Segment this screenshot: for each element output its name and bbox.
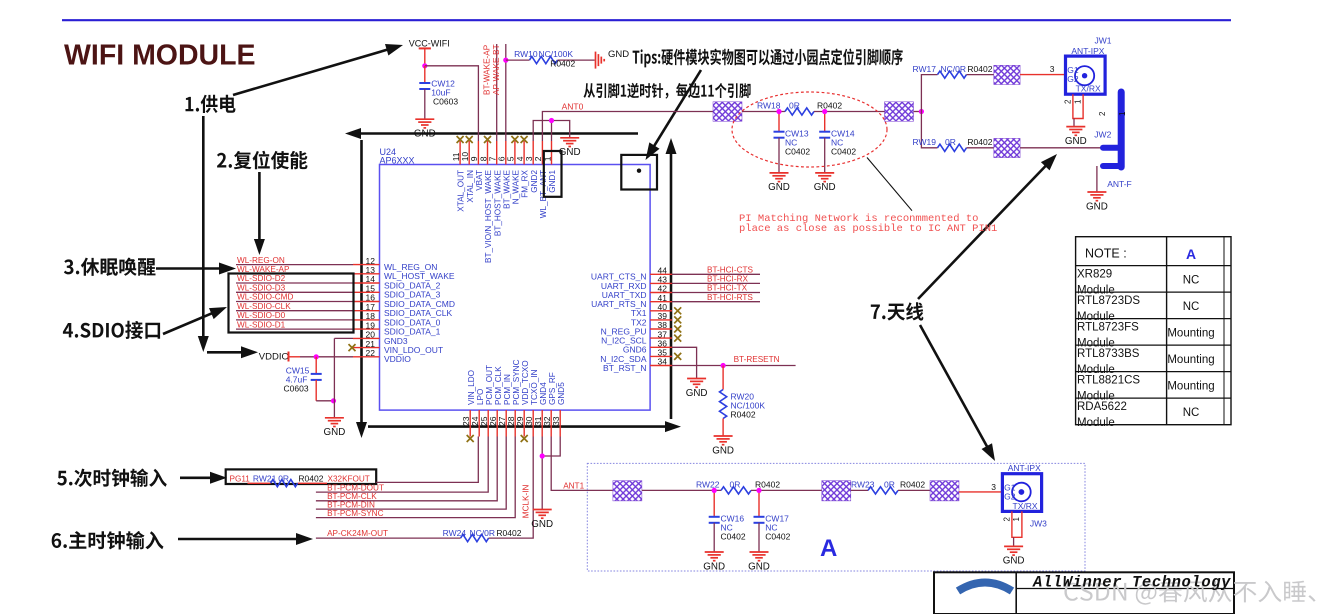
svg-text:1: 1 [1073,99,1082,104]
crosshatch ferrite 3 [994,65,1020,84]
resistor RW19 [913,137,994,151]
svg-text:RTL8821CS: RTL8821CS [1077,375,1140,387]
NOTE table [1076,237,1231,430]
label 4 sdio [63,321,160,339]
svg-text:WL-REG-ON: WL-REG-ON [237,256,285,265]
svg-text:VDDIO: VDDIO [259,352,289,363]
svg-text:GND: GND [814,182,836,193]
svg-text:BT_WAKE: BT_WAKE [502,169,511,208]
svg-text:R0402: R0402 [298,473,323,483]
wire pin20 GND3 down [334,338,353,417]
svg-text:X32KFOUT: X32KFOUT [328,474,370,483]
power port VDDIO [259,352,300,363]
arrow tips to pin1 locator [652,70,701,150]
svg-text:XR829: XR829 [1077,269,1112,281]
svg-text:GND: GND [608,49,629,60]
loop arrow bottom (right) [368,421,681,432]
ground below CW13 [768,173,790,193]
crosshatch ferrite 2 [885,102,914,122]
wire RW24 to MCLK pin30 [489,437,534,539]
svg-text:A: A [1186,246,1196,262]
top border line [62,19,1231,21]
svg-text:R0402: R0402 [550,59,575,69]
svg-text:GND: GND [324,427,346,438]
svg-text:3: 3 [991,482,996,492]
svg-text:AP-CK24M-OUT: AP-CK24M-OUT [327,529,388,538]
ground below CW16 [703,552,725,572]
dashed region A box [587,463,1085,571]
svg-text:2: 2 [1064,99,1073,104]
svg-text:GND: GND [414,129,436,140]
svg-text:GPS_RF: GPS_RF [548,372,557,405]
arrow label1 down [198,116,209,352]
svg-text:VDD_TCXO: VDD_TCXO [521,360,530,405]
resistor RW10 [506,49,595,68]
junction VDDIO [314,354,319,359]
capacitor CW16 [709,488,746,552]
label 3 xiumian [64,258,156,276]
svg-text:C0603: C0603 [284,384,309,394]
arrow label2 down [254,172,265,255]
ground below RW20 [712,436,734,456]
ground below GND6 [686,379,708,399]
ground below JW3 [1003,546,1025,566]
arrow label6 [178,538,301,541]
svg-text:BT-HCI-CTS: BT-HCI-CTS [707,266,753,275]
svg-text:MCLK-IN: MCLK-IN [521,484,530,518]
svg-text:R0402: R0402 [967,137,992,147]
resistor RW22 [696,480,822,494]
svg-text:ANT0: ANT0 [562,102,584,112]
svg-text:JW2: JW2 [1094,129,1111,139]
svg-text:GND: GND [1086,201,1108,212]
ground below pin31 [531,510,553,530]
svg-text:BT-PCM-DOUT: BT-PCM-DOUT [327,483,384,492]
wire X32KFOUT to pin24 [376,437,478,483]
svg-text:PCM_OUT: PCM_OUT [485,365,494,405]
no-connect X mark pin 21 [349,344,356,351]
svg-text:RW17: RW17 [913,64,937,74]
svg-text:PCM_CLK: PCM_CLK [494,366,503,405]
loop arrow right (up) [666,138,677,419]
svg-text:VCC-WIFI: VCC-WIFI [409,39,450,49]
svg-text:C0603: C0603 [433,97,458,107]
svg-text:place as close as possible to: place as close as possible to IC ANT PIN… [739,223,997,235]
svg-text:ANT-IPX: ANT-IPX [1071,46,1104,56]
svg-text:AllWinner Technology: AllWinner Technology [1032,574,1231,592]
wire VDDIO to pin22 [300,356,353,358]
svg-text:GND4: GND4 [539,382,548,405]
svg-text:RTL8723DS: RTL8723DS [1077,295,1140,307]
svg-text:XTAL_IN: XTAL_IN [466,170,475,203]
svg-text:GND5: GND5 [557,382,566,405]
svg-text:Mounting: Mounting [1167,327,1214,339]
svg-text:WL-SDIO-D1: WL-SDIO-D1 [237,320,286,329]
resistor RW18 [757,101,885,115]
svg-text:GND: GND [1065,136,1087,147]
resistor RW17 [913,64,994,78]
svg-text:TX/RX: TX/RX [1013,501,1038,511]
ground below JW2 [1086,192,1108,212]
svg-text:R0402: R0402 [817,101,842,111]
svg-text:VDDIO: VDDIO [384,354,411,364]
resistor RW24 [443,528,522,542]
title block [934,572,1234,614]
svg-text:WL-SDIO-D2: WL-SDIO-D2 [237,274,286,283]
annotation box around SDIO nets [229,274,354,333]
svg-text:3: 3 [1050,64,1055,74]
power symbol VCC-WIFI [409,39,450,66]
wire GND6 to ground [672,347,697,378]
ground below CW17 [748,552,770,572]
ground below JW1 [1065,127,1087,147]
svg-text:BT-PCM-SYNC: BT-PCM-SYNC [327,509,383,518]
svg-text:GND: GND [1003,556,1025,567]
svg-text:BT-RESETN: BT-RESETN [734,355,780,364]
svg-text:Module: Module [1077,417,1115,429]
svg-text:GND1: GND1 [548,170,557,193]
connector JW3 ANT-IPX [1002,463,1041,511]
svg-text:BT-HCI-RTS: BT-HCI-RTS [707,293,753,302]
tips text [633,49,903,68]
crosshatch ferrite 6 [822,481,851,501]
svg-text:C0402: C0402 [785,147,810,157]
svg-text:R0402: R0402 [900,480,925,490]
arrow label4 [163,312,216,334]
tips text line2 [584,83,751,99]
svg-text:GND: GND [686,388,708,399]
svg-text:PCM_IN: PCM_IN [503,374,512,405]
svg-text:0R: 0R [730,480,741,490]
net BT-RESETN [672,355,796,368]
svg-text:TCXO_IN: TCXO_IN [530,369,539,405]
resistor RW23 [851,480,930,494]
svg-text:ANT-IPX: ANT-IPX [1008,463,1041,473]
wire junction down to RW19 [921,112,937,148]
net BT-WAKE-AP vertical [483,44,497,141]
svg-text:BT-HCI-TX: BT-HCI-TX [707,284,748,293]
svg-text:BT-WAKE-AP: BT-WAKE-AP [483,44,492,95]
capacitor CW13 [774,109,811,173]
svg-text:JW3: JW3 [1030,518,1047,528]
svg-text:R0402: R0402 [731,409,756,419]
BT-HCI net labels and wires [672,266,760,302]
wire GND2 GND1 to ground [533,118,570,141]
svg-text:RW10: RW10 [514,49,538,59]
svg-text:0R: 0R [278,473,289,483]
svg-text:C0402: C0402 [765,532,790,542]
svg-text:NC: NC [1183,301,1200,313]
ground sideways after RW10 [596,49,630,69]
pin1 locator box with dot [621,155,657,190]
JW1 pins 2 1 to ground [1064,94,1083,126]
svg-text:1: 1 [1012,517,1021,522]
wire crosshatch1 to RW18 [742,111,785,113]
svg-text:RW18: RW18 [757,101,781,111]
svg-text:33: 33 [551,416,561,426]
no-connect X marks top pins [457,136,528,143]
svg-text:NC/0R: NC/0R [941,64,967,74]
svg-text:NC: NC [1183,407,1200,419]
svg-text:R0402: R0402 [967,64,992,74]
loop arrow left (down) [356,140,367,438]
svg-text:22: 22 [366,348,376,358]
svg-text:2: 2 [1098,111,1107,116]
svg-text:2: 2 [1003,517,1012,522]
arrow label1 to VCC-WIFI [233,48,392,95]
BT-PCM net labels and wires [316,437,515,518]
annotation box around GND1 pin [544,151,562,197]
ground below CW12 [414,119,436,139]
svg-text:WL-SDIO-D3: WL-SDIO-D3 [237,284,286,293]
capacitor CW14 [819,109,856,173]
junction VCC-WIFI [422,63,427,68]
svg-text:FM_RX: FM_RX [521,169,530,197]
label 1 gongdian [186,95,236,113]
svg-text:GND: GND [748,561,770,572]
svg-text:NC/0R: NC/0R [470,528,496,538]
wire crosshatch2 to junction [914,111,922,113]
crosshatch ferrite 4 [994,138,1020,157]
capacitor CW12 [419,66,458,119]
svg-text:RW24: RW24 [443,528,467,538]
ground below CW14 [814,173,836,193]
svg-text:R0402: R0402 [496,528,521,538]
wire CW15 to gnd node [316,400,334,402]
label 5 cishizhong [57,469,167,488]
svg-text:AP6XXX: AP6XXX [380,156,415,166]
svg-text:ANT1: ANT1 [563,481,584,490]
ic U24 body [380,165,651,411]
arrow label7 up to JW2 [918,163,1049,299]
left net labels WL- wires [236,256,353,330]
label 7 tianxian [871,302,924,320]
net AP-CK24M-OUT [316,529,461,538]
crosshatch ferrite 7 [930,481,959,501]
svg-text:RTL8723FS: RTL8723FS [1077,322,1139,334]
ic right pins 44-34 with numbers and names [591,266,672,373]
no-connect X marks bottom pins [467,435,528,442]
svg-text:TX/RX: TX/RX [1076,83,1101,93]
junction CW15 gnd [331,398,336,403]
svg-text:GND2: GND2 [530,170,539,193]
pi network dashed ellipse [732,92,887,167]
net AP-WAKE-BT vertical [492,44,506,141]
wire crosshatch6 to RW23 [851,489,868,491]
svg-text:RW22: RW22 [696,480,720,490]
wire JW2 pin to ground [1097,166,1132,192]
svg-text:NC: NC [1183,274,1200,286]
svg-text:A: A [820,535,837,562]
svg-text:GND: GND [559,147,581,158]
svg-text:WL-SDIO-D0: WL-SDIO-D0 [237,311,286,320]
allwinner logo arc [958,583,1012,592]
svg-text:RDA5622: RDA5622 [1077,401,1127,413]
svg-text:0R: 0R [789,101,800,111]
svg-text:Mounting: Mounting [1167,354,1214,366]
svg-text:BT_RST_N: BT_RST_N [603,363,646,373]
resistor RW20 [720,366,766,436]
svg-text:1: 1 [1118,111,1127,116]
junction antenna split [919,109,924,114]
ic bottom pins 23-33 with numbers and names [461,359,566,436]
svg-text:AP-WAKE-BT: AP-WAKE-BT [492,44,501,95]
svg-text:ANT-F: ANT-F [1107,179,1132,189]
svg-text:N_WAKE: N_WAKE [512,169,521,204]
svg-text:XTAL_OUT: XTAL_OUT [457,170,466,212]
JW3 pins 2 1 to ground [1003,511,1022,546]
arrow label7 down to JW3 [920,325,989,451]
no-connect X marks right pins [674,307,681,360]
wire crosshatch7 to JW3 [959,482,1002,492]
svg-text:BT-HCI-RX: BT-HCI-RX [707,275,748,284]
svg-text:34: 34 [658,357,668,367]
svg-text:BT_VIO/N_HOST_WAKE: BT_VIO/N_HOST_WAKE [484,169,493,263]
svg-text:WL-SDIO-CLK: WL-SDIO-CLK [237,302,291,311]
svg-text:VIN_LDO: VIN_LDO [467,370,476,405]
wire crosshatch3 to JW1 [1020,64,1065,75]
svg-text:0R: 0R [945,137,956,147]
ground below CW15 [324,418,346,438]
svg-text:C0402: C0402 [721,532,746,542]
connector JW1 ANT-IPX [1066,46,1106,94]
svg-text:GND: GND [768,182,790,193]
wire GPS_RF to ANT1 [551,437,613,491]
wire junction up to RW17 [921,75,937,112]
svg-text:PG11: PG11 [230,474,251,483]
wire crosshatch5 to RW22 [642,489,721,491]
svg-text:GND: GND [531,519,553,530]
ic left pins 12-22 with numbers and names [353,256,455,364]
svg-text:LPO: LPO [476,389,485,405]
wire WL_BT_ANT to ANT0 [542,112,713,142]
arrow label5 [180,476,215,479]
svg-text:RW23: RW23 [851,480,875,490]
svg-text:GND: GND [703,561,725,572]
capacitor CW17 [754,488,791,552]
svg-text:BT_HOST_WAKE: BT_HOST_WAKE [493,169,502,236]
connector JW2 antenna [1098,92,1127,167]
svg-text:RW21: RW21 [253,473,277,483]
svg-text:WL-SDIO-CMD: WL-SDIO-CMD [237,293,293,302]
svg-text:Mounting: Mounting [1167,380,1214,392]
svg-text:C0402: C0402 [831,147,856,157]
svg-text:RTL8733BS: RTL8733BS [1077,348,1140,360]
ground for GND1 GND2 pins [559,138,581,158]
wire crosshatch4 to JW2 [1020,147,1101,149]
svg-text:VBAT: VBAT [475,170,484,191]
svg-text:RW19: RW19 [913,137,937,147]
arrow to VDDIO [207,351,246,354]
pointer line ellipse to note [867,158,912,211]
label 6 zhushizhong [52,531,164,550]
junction AP-WAKE-BT RW10 [503,58,508,63]
wire VBAT to pin9 [425,66,479,141]
svg-text:GND: GND [712,445,734,456]
svg-text:0R: 0R [884,480,895,490]
arrow label3 [156,267,224,270]
svg-text:NOTE :: NOTE : [1085,247,1127,261]
crosshatch ferrite 5 [613,481,642,501]
svg-text:PCM_SYNC: PCM_SYNC [512,359,521,405]
wire GND4 GND5 join [540,437,561,510]
svg-text:JW1: JW1 [1095,36,1112,46]
loop arrow top (left) [345,128,638,139]
capacitor CW15 [284,357,322,401]
annotation box PG11 RW21 [226,469,377,486]
watermark CSDN [1064,580,1315,604]
label 2 fuwei [217,151,308,170]
crosshatch ferrite 1 [713,102,742,122]
ic top pins 11-1 with numbers and names [451,141,557,263]
svg-text:WIFI MODULE: WIFI MODULE [64,40,256,72]
